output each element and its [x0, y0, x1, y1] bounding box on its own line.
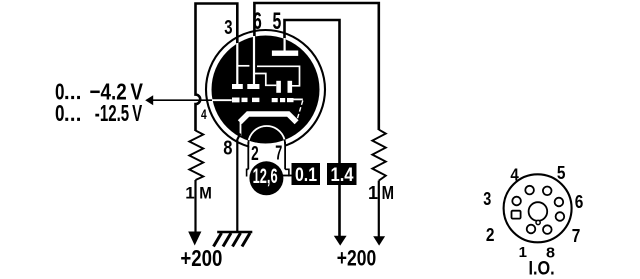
svg-text:6: 6 — [575, 191, 584, 212]
svg-text:1: 1 — [185, 183, 194, 202]
svg-text:I.O.: I.O. — [529, 258, 555, 279]
svg-text:+200: +200 — [337, 245, 376, 270]
svg-text:2: 2 — [251, 142, 259, 165]
svg-text:7: 7 — [275, 142, 282, 165]
svg-text:-12.5 V: -12.5 V — [95, 100, 143, 126]
svg-text:0: 0 — [55, 100, 65, 126]
svg-text:5: 5 — [273, 8, 282, 35]
svg-text:3: 3 — [483, 188, 491, 209]
svg-text:7: 7 — [572, 225, 581, 246]
svg-text:4: 4 — [510, 165, 519, 185]
svg-text:M: M — [382, 183, 394, 203]
svg-text:6: 6 — [253, 8, 262, 35]
svg-text:M: M — [199, 183, 212, 202]
svg-text:0.1: 0.1 — [295, 165, 317, 186]
svg-text:1: 1 — [368, 183, 378, 203]
svg-text:1.4: 1.4 — [331, 165, 354, 186]
svg-text:4: 4 — [201, 106, 207, 122]
svg-text:1: 1 — [519, 244, 527, 261]
svg-text:2: 2 — [486, 224, 495, 245]
svg-text:12,6: 12,6 — [253, 165, 278, 188]
svg-text:+200: +200 — [180, 245, 222, 271]
svg-text:8: 8 — [223, 138, 232, 160]
svg-text:5: 5 — [557, 162, 566, 183]
svg-text:3: 3 — [224, 16, 232, 39]
